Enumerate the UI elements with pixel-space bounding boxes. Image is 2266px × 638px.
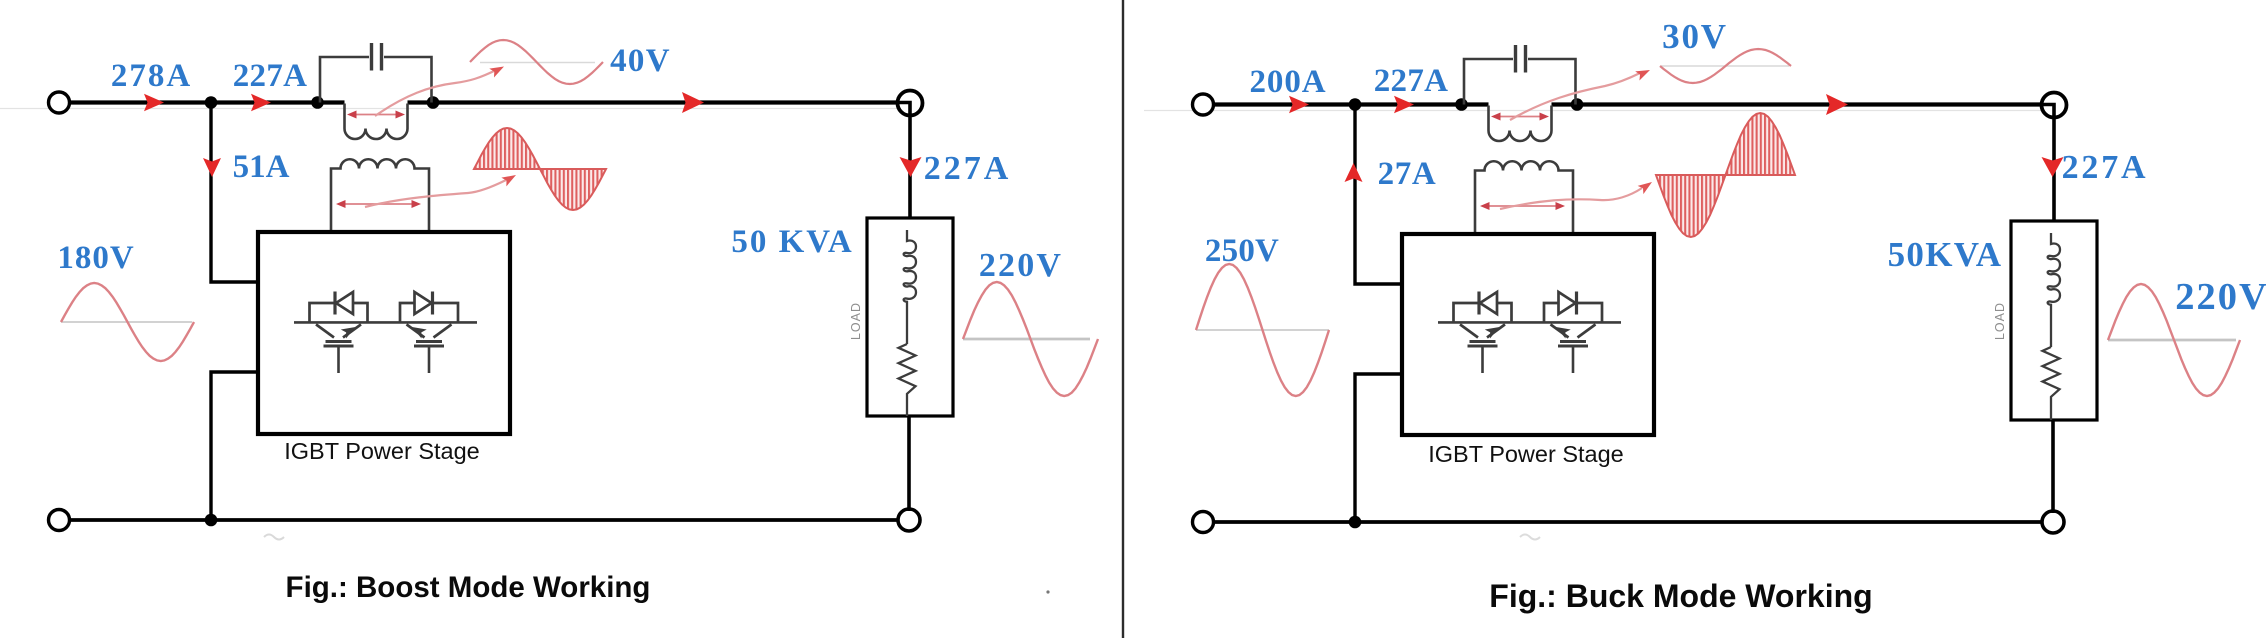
load box: [867, 218, 953, 416]
current arrow 227A down at load: [900, 157, 922, 177]
input terminal: [49, 92, 70, 113]
wire: load drop from output terminal: [908, 116, 912, 219]
svg-text:40V: 40V: [610, 43, 671, 79]
svg-text:51A: 51A: [233, 149, 290, 185]
faint watermark squiggle right: [1520, 535, 1540, 540]
svg-text:200A: 200A: [1250, 64, 1327, 100]
input terminal: [1193, 94, 1214, 115]
svg-text:LOAD: LOAD: [1993, 302, 2007, 340]
IGBT power stage box: [258, 232, 510, 434]
wire: load bottom to terminal: [2051, 420, 2055, 513]
faint watermark squiggle left: [264, 535, 284, 540]
hatched sine (boost injection): [474, 168, 606, 170]
wire stub inside output terminal: [898, 103, 910, 117]
swoosh arrow to hatched sine: [365, 180, 506, 207]
divider line between figures: [1122, 0, 1124, 638]
IGBT Q1 with diode D1: [1454, 292, 1512, 374]
40V sine wave: [480, 62, 595, 64]
svg-text:Fig.: Buck Mode Working: Fig.: Buck Mode Working: [1489, 578, 1872, 614]
current arrow 227A: [251, 94, 271, 112]
faint scan line under top wire: [0, 108, 908, 110]
faint scan line under top wire: [1144, 110, 2052, 112]
180V sine wave: [61, 321, 192, 323]
current arrow 227A right: [1394, 96, 1414, 114]
current arrow 27A (up): [1345, 163, 1363, 182]
load box: [2011, 221, 2097, 420]
svg-text:227A: 227A: [233, 58, 308, 94]
node: capacitor branch left junction: [311, 96, 324, 109]
output terminal (top right): [898, 91, 923, 116]
220V output sine (right fig): [2108, 339, 2236, 342]
wire: load drop from output terminal: [2052, 118, 2056, 222]
red span arrow inside series winding: [352, 114, 400, 116]
svg-text:227A: 227A: [1374, 63, 1449, 99]
load resistor: [2043, 347, 2060, 420]
bottom-right terminal: [2042, 511, 2064, 533]
transformer T1 secondary winding: [1475, 161, 1573, 234]
rail inside IGBT box: [1438, 321, 1621, 324]
wire: vertical branch from IGBT stage (lower) to bottom wire: [1355, 374, 1402, 522]
svg-text:LOAD: LOAD: [849, 302, 863, 340]
load inductor: [2048, 233, 2060, 347]
stray dot artifact: [1046, 590, 1049, 593]
capacitor C1 branch wires: [320, 57, 432, 103]
svg-text:227A: 227A: [924, 150, 1012, 187]
current arrow 200A: [1289, 96, 1309, 114]
svg-text:180V: 180V: [57, 240, 134, 276]
bottom-left terminal: [49, 510, 70, 531]
svg-text:220V: 220V: [979, 247, 1063, 284]
red span arrow inside secondary winding: [341, 203, 416, 205]
transformer T1 series winding (cup with scallops): [1489, 106, 1552, 142]
wire: vertical branch to IGBT stage (upper): [211, 103, 258, 283]
svg-text:220V: 220V: [2175, 276, 2266, 318]
bottom-left terminal: [1193, 512, 1214, 533]
wire: bottom return wire: [1214, 520, 2041, 524]
wire: bottom return wire: [70, 518, 897, 522]
capacitor C1 plates: [370, 43, 373, 71]
red span arrow inside secondary winding: [1485, 205, 1560, 207]
node: capacitor branch right junction: [427, 96, 440, 109]
svg-text:227A: 227A: [2062, 149, 2149, 186]
transformer T1 secondary winding: [331, 159, 429, 232]
current arrow on wire to load (right fig): [1826, 94, 1848, 115]
current arrow on wire to load: [682, 92, 704, 113]
load resistor: [899, 344, 916, 416]
svg-text:50 KVA: 50 KVA: [731, 224, 853, 260]
wire stub inside output terminal: [2042, 105, 2054, 119]
capacitor C1 branch wires: [1464, 59, 1576, 105]
capacitor C1 plates: [1514, 45, 1517, 73]
wire: load bottom to terminal: [907, 416, 911, 511]
250V sine wave: [1196, 329, 1329, 331]
220V output sine (left fig): [963, 338, 1090, 341]
svg-text:30V: 30V: [1662, 17, 1728, 56]
transformer T1 series winding (cup with scallops): [345, 104, 408, 140]
load inductor: [904, 230, 916, 344]
svg-text:27A: 27A: [1378, 156, 1437, 192]
wire: top main horizontal: [1214, 102, 2041, 106]
output terminal (top right): [2042, 93, 2067, 118]
current arrow 278A: [144, 94, 164, 112]
current arrow 51A (down): [203, 158, 221, 177]
swoosh arrow to 40V sine: [375, 70, 496, 116]
current arrow 227A down right load: [2042, 157, 2064, 177]
hatched sine right (buck, inverted): [1656, 174, 1795, 176]
bottom-right terminal: [898, 509, 920, 531]
IGBT Q2 with diode D2: [400, 292, 458, 374]
node: bottom junction: [205, 514, 218, 527]
svg-text:IGBT Power Stage: IGBT Power Stage: [1428, 441, 1624, 467]
svg-text:IGBT Power Stage: IGBT Power Stage: [284, 438, 480, 464]
node: capacitor branch left junction: [1455, 98, 1468, 111]
node: capacitor branch right junction: [1571, 98, 1584, 111]
IGBT Q2 with diode D2: [1544, 292, 1602, 374]
red span arrow inside series winding: [1496, 116, 1544, 118]
node: junction J1: [205, 96, 218, 109]
node: bottom junction: [1349, 516, 1362, 529]
svg-text:278A: 278A: [111, 58, 192, 94]
wire: vertical branch from IGBT stage (lower) to bottom wire: [211, 372, 258, 520]
rail inside IGBT box: [294, 321, 477, 324]
node: junction J1: [1349, 98, 1362, 111]
svg-text:50KVA: 50KVA: [1888, 235, 2003, 274]
swoosh arrow to 30V sine: [1510, 73, 1640, 120]
wire: top main horizontal: [70, 100, 897, 104]
swoosh arrow to hatched sine right: [1500, 188, 1642, 209]
30V sine wave (inverted): [1661, 65, 1789, 67]
svg-text:Fig.: Boost Mode Working: Fig.: Boost Mode Working: [286, 571, 651, 604]
wire: vertical branch to IGBT stage (upper): [1355, 105, 1402, 285]
svg-text:250V: 250V: [1205, 233, 1279, 269]
IGBT Q1 with diode D1: [310, 292, 368, 374]
IGBT power stage box: [1402, 234, 1654, 435]
